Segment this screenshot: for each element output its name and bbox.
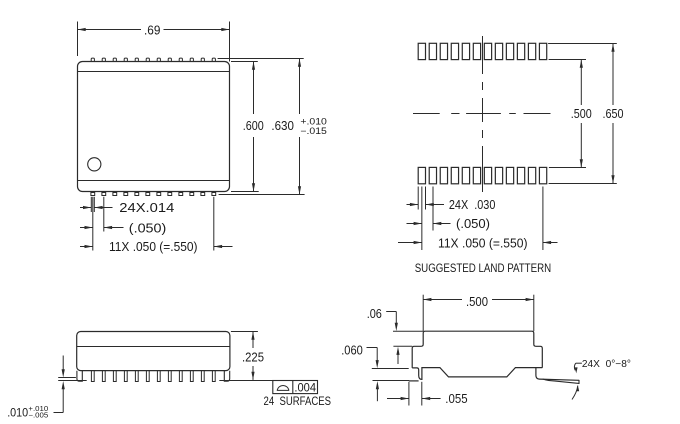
svg-text:.010: .010 xyxy=(7,405,28,419)
svg-text:SUGGESTED LAND PATTERN: SUGGESTED LAND PATTERN xyxy=(415,261,552,275)
svg-text:24X.014: 24X.014 xyxy=(119,200,174,215)
svg-text:.630: .630 xyxy=(271,118,294,133)
svg-text:.060: .060 xyxy=(341,342,363,357)
svg-text:.004: .004 xyxy=(294,381,316,395)
svg-text:11X .050 (=.550): 11X .050 (=.550) xyxy=(438,235,528,250)
svg-text:.06: .06 xyxy=(367,306,382,321)
svg-text:−.015: −.015 xyxy=(300,126,327,136)
svg-text:.500: .500 xyxy=(571,106,592,121)
svg-text:.225: .225 xyxy=(242,349,264,364)
svg-text:.055: .055 xyxy=(445,391,467,406)
svg-text:.69: .69 xyxy=(144,23,160,38)
svg-text:−.005: −.005 xyxy=(28,413,48,420)
svg-text:11X .050 (=.550): 11X .050 (=.550) xyxy=(109,239,198,254)
svg-text:.500: .500 xyxy=(466,294,488,309)
svg-text:+.010: +.010 xyxy=(300,117,327,127)
svg-text:.650: .650 xyxy=(603,106,624,121)
svg-text:24X 0°−8°: 24X 0°−8° xyxy=(582,359,631,370)
svg-text:(.050): (.050) xyxy=(456,216,490,231)
svg-text:.600: .600 xyxy=(243,118,264,133)
svg-text:24 SURFACES: 24 SURFACES xyxy=(264,394,332,408)
svg-text:24X .030: 24X .030 xyxy=(449,197,496,212)
svg-text:(.050): (.050) xyxy=(129,220,167,235)
